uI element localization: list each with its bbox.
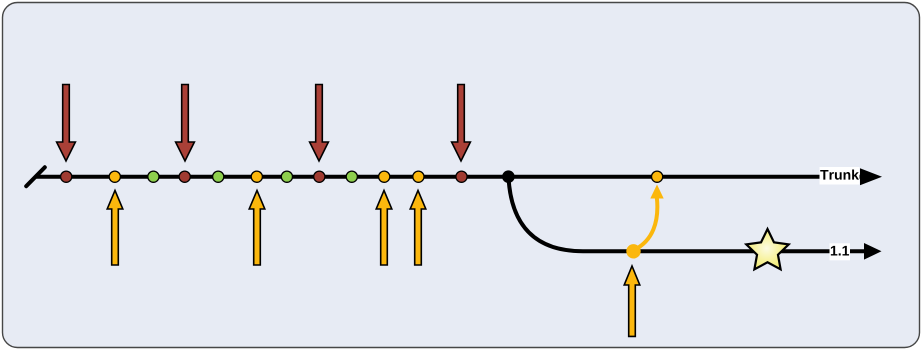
trunk arrowhead	[860, 168, 882, 185]
orange up arrow 3	[376, 190, 392, 265]
red commit dot 1	[61, 171, 72, 182]
branch fork curve	[509, 177, 584, 251]
Trunk label	[820, 167, 860, 185]
red down arrow 3	[310, 85, 329, 162]
red down arrow 1	[57, 85, 76, 162]
branch 1.1 line	[583, 249, 866, 253]
orange up arrow 1	[107, 190, 123, 265]
orange up arrow below branch	[624, 266, 640, 336]
red down arrow 2	[176, 85, 195, 162]
1.1 label	[830, 243, 851, 260]
branch arrowhead	[864, 243, 882, 260]
branch point dot	[502, 170, 515, 183]
green commit dot 3	[281, 171, 292, 182]
star on branch	[746, 229, 788, 269]
red commit dot 2	[179, 171, 190, 182]
orange commit dot 2	[251, 171, 262, 182]
orange up arrow 4	[410, 190, 426, 265]
orange commit dot on branch	[626, 244, 640, 258]
red commit dot 4	[456, 171, 467, 182]
orange merge target dot on trunk	[652, 171, 663, 182]
trunk line	[36, 175, 862, 179]
orange commit dot 1	[109, 171, 120, 182]
green commit dot 1	[148, 171, 159, 182]
red commit dot 3	[314, 171, 325, 182]
green commit dot 4	[346, 171, 357, 182]
trunk start slash	[26, 167, 45, 186]
orange commit dot 4	[413, 171, 424, 182]
orange commit dot 3	[379, 171, 390, 182]
orange merge curve arrow	[634, 197, 657, 250]
orange up arrow 2	[249, 190, 265, 265]
green commit dot 2	[213, 171, 224, 182]
red down arrow 4	[452, 85, 471, 162]
